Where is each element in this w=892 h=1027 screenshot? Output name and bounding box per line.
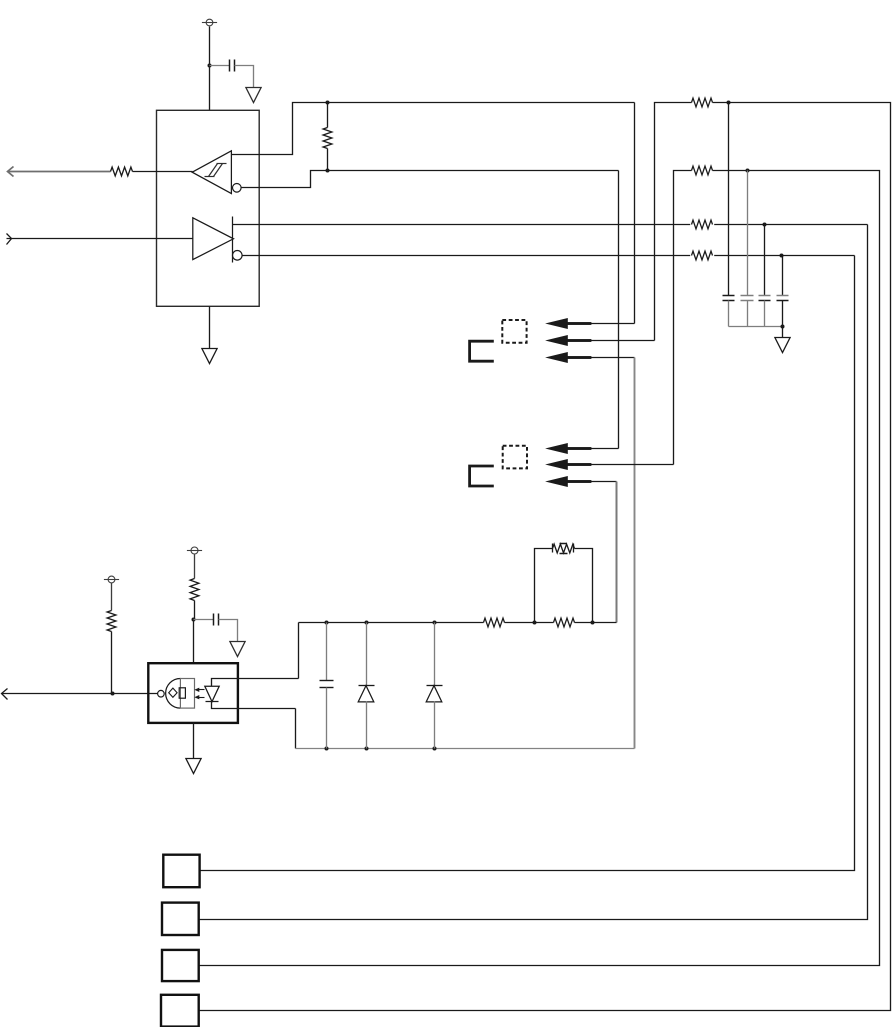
arrow J1 pin3 [545,352,591,363]
wire J1 pin1 to net A [591,323,635,325]
resistor R11 parallel branch [535,544,593,623]
wire bus to ground [782,327,784,338]
resistor R3 inline A2 [692,98,713,107]
wire bottom bus riser [295,709,297,749]
node junction top bus / D2 [433,621,437,625]
capacitor C2 [194,614,219,626]
node junction R8/EN [111,692,115,696]
power symbol VCC1 [202,19,217,26]
node junction VCC1/C1 [208,64,212,68]
wire U2 top output [212,679,299,687]
pad P4 [161,995,199,1027]
power symbol VCC3 [104,576,119,583]
op-amp U1B driver buffer [193,217,234,263]
node junction A2/C3 [727,101,731,105]
resistor R1 series RX [111,167,133,176]
resistor R5 inline Y [690,218,714,230]
arrow J2 pin1 [545,443,591,454]
node junction R9/R10 [533,621,537,625]
wire R1 to U1A input [133,171,193,173]
diode D2 [426,623,442,749]
wire net B vertical to J2 pin1 [618,171,620,449]
node junction R2 top [326,101,330,105]
ground GND3 [775,338,790,353]
resistor R6 inline Z [690,250,714,262]
power symbol VCC2 [187,547,202,554]
wire J1 pin2 to net A2 [591,340,655,342]
wire U2 bottom output [212,702,296,709]
resistor R7 [190,555,199,620]
resistor R2 pullup [323,103,332,171]
arrow J1 pin2 [545,335,591,346]
capacitor C7 [320,623,334,749]
ground GND2 under U1 [202,349,217,364]
wire J2 pin3 drop (grey) [616,482,618,623]
wire junction to U2 top pin [193,620,195,664]
arrow input TX left [7,234,12,245]
IC U2 gate driver box [148,663,238,723]
ground GND5 under U2 [186,759,201,774]
arrow output EN left [2,689,8,700]
pad P1 [163,855,199,888]
gate symbol U2 and-shape [166,679,195,709]
IC U1 transceiver box [157,110,260,306]
node junction Z/C6 [780,254,784,258]
wire capacitor ground bus [729,326,783,328]
connector J1 dashed body [502,320,526,343]
wire top bus with series resistors [299,618,617,627]
connector J1 shield bracket [470,341,494,361]
wire net A vertical to J1 pin1 [634,103,636,324]
wire J2 pin1 to net B [591,448,619,450]
node junction Y/C5 [763,223,767,227]
input bubble U2 [158,690,165,697]
node junction bottom bus / D1 [365,747,369,751]
wire U1B out Y net [233,224,868,226]
resistor R4 inline B2 [692,166,713,175]
inverting output bubble U1B [233,251,243,261]
capacitor C3 [723,103,735,327]
capacitor C4 [741,171,754,327]
node junction bottom bus / C7 [325,747,329,751]
wire A2 to pad P4 [199,103,891,1011]
pad P3 [162,950,199,981]
capacitor C1 [210,60,235,72]
wire J2 pin3 to RC net [591,481,617,483]
wire U2 bottom pin [193,723,195,759]
wire TX input to U1B [7,238,193,240]
node junction top bus / C7 [325,621,329,625]
wire Y to pad P2 [199,225,868,920]
node junction R2 bottom [326,169,330,173]
node junction R7/C2 [192,618,196,622]
wire net A2 rail [655,103,692,341]
op-amp U1A receiver schmitt buffer [192,151,231,194]
inverting output bubble U1A [233,184,242,193]
wire B2 to pad P3 [199,171,880,966]
pad P2 [162,903,199,935]
node junction bottom bus / D2 [433,747,437,751]
wire J2 pin2 to net B2 [591,464,674,466]
wire Z to pad P1 [200,256,855,871]
wire bottom bus [296,748,635,750]
arrow J1 pin1 [545,318,591,329]
wire C1 to ground [235,66,254,88]
output diode U2 (down triangle) [205,686,219,701]
wire U1B bubble Z net [243,255,855,257]
wire VCC1 to U1 pin [209,27,211,111]
capacitor C5 [759,225,771,327]
wire J1 pin3 drop (grey) [634,358,636,749]
node junction cap bus [781,325,785,329]
wire J1 pin3 to bottom bus [591,357,635,359]
wire RX output [8,171,111,173]
arrow output RX left [8,167,14,177]
connector J2 shield bracket [470,466,494,486]
wire C2 to ground [219,620,238,642]
ground GND1 [246,88,261,103]
opto arrows U2 [194,688,204,700]
wire top bus riser [298,623,300,679]
diode D1 [358,623,374,749]
wire U1 bottom pin [209,307,211,349]
wire U1A bubble to net B [242,171,619,188]
wire EN to U2 input [2,693,158,695]
ground GND4 [230,642,245,657]
node junction B2/C4 [746,169,750,173]
resistor R8 [107,583,116,694]
node junction top bus / D1 [365,621,369,625]
connector J2 dashed body [503,446,527,469]
capacitor C6 [777,256,789,327]
wire net B2 rail [674,171,692,465]
wire U1A out to net A top [232,103,635,155]
node junction R10 right [591,621,595,625]
arrow J2 pin2 [545,459,591,470]
arrow J2 pin3 [545,476,591,487]
